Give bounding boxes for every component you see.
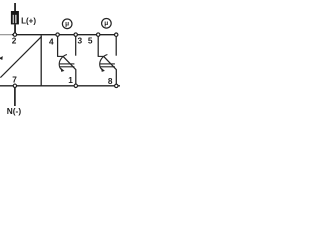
switch K1 bar upper (60, 63, 75, 65)
bottom bus N(-) (0, 85, 120, 87)
wire right inner leg (115, 36, 117, 55)
svg-text:μ: μ (65, 21, 69, 28)
switch blade S1 (diagonal) (0, 36, 41, 77)
svg-text:3: 3 (77, 36, 82, 46)
switch K1 rotation arc (59, 55, 67, 70)
switch K2 bar lower (100, 66, 115, 68)
svg-text:N(-): N(-) (7, 106, 22, 116)
motor M2 (right) (102, 19, 112, 29)
terminal 7 (13, 84, 16, 87)
terminal 2 (13, 33, 16, 36)
svg-text:2: 2 (12, 36, 17, 46)
terminal 3 (74, 33, 77, 36)
switch K2 arc arrowhead (101, 68, 105, 72)
terminal (unlabeled, right inner) (115, 33, 118, 36)
svg-text:4: 4 (49, 37, 54, 47)
terminal 5 (97, 33, 100, 36)
wire right outer leg (97, 36, 99, 56)
switch K2 rotation arc (100, 55, 108, 70)
svg-text:8: 8 (108, 76, 113, 86)
top bus L(+) (0, 34, 13, 36)
terminal 1 (74, 84, 77, 87)
svg-text:L(+): L(+) (21, 16, 36, 25)
wire N(-) lead (14, 88, 16, 106)
wire L(+) lead (14, 3, 16, 12)
wire vertical terminal 4 (40, 35, 42, 86)
wire left inner leg (75, 36, 77, 55)
arrowhead of S1 actuator (0, 56, 3, 60)
motor M1 (left) (62, 19, 72, 29)
switch K1 bar lower (60, 66, 75, 68)
switch K1 arc arrowhead (61, 68, 65, 72)
svg-text:1: 1 (68, 75, 73, 85)
svg-text:μ: μ (104, 20, 108, 27)
switch K2 bar upper (100, 63, 115, 65)
fixed contact tick (right switch) (98, 55, 104, 57)
terminal 8 (115, 84, 118, 87)
switch K1 blade (63, 57, 76, 85)
wire fuse to terminal 2 (14, 24, 16, 33)
fuse F1 body (11, 11, 19, 24)
fixed contact tick (left switch) (57, 55, 63, 57)
switch K2 blade (104, 57, 117, 85)
wire left outer leg (57, 36, 59, 56)
terminal (unlabeled, left outer) (56, 33, 59, 36)
svg-text:5: 5 (88, 36, 93, 46)
svg-text:7: 7 (12, 75, 17, 85)
